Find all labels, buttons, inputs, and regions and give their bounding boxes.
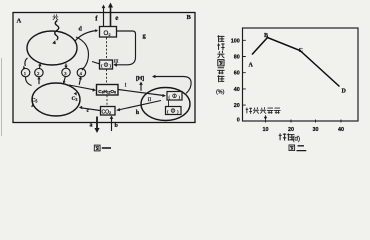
circled 4 — [77, 68, 85, 76]
svg-text:20: 20 — [234, 103, 240, 109]
svg-text:III: III — [114, 58, 119, 63]
chart frame — [243, 28, 359, 121]
arrow into circle1 from chloroplast — [25, 58, 28, 66]
Calvin-cycle ellipse — [32, 83, 80, 116]
cycle arrowhead left — [31, 104, 35, 107]
CO2 box — [101, 107, 116, 116]
svg-text:30: 30 — [313, 127, 319, 133]
mito box 1 — [167, 92, 182, 101]
connector circle3 to calvin ellipse — [64, 77, 66, 84]
d arrow chloroplast to O2 box — [75, 31, 97, 42]
svg-text:(d): (d) — [293, 135, 301, 142]
link box1 to box2 — [168, 100, 170, 106]
mitochondrion ellipse — [141, 88, 190, 121]
svg-text:B: B — [264, 33, 268, 39]
x axis label 叶龄 — [279, 133, 287, 140]
arrow e out of cell — [110, 7, 112, 27]
scan streak left edge — [1, 58, 3, 136]
line C6H12O6 to mitochondrion — [118, 90, 163, 96]
svg-text:[H]: [H] — [136, 76, 144, 82]
svg-text:D: D — [342, 89, 347, 95]
note pointer arrow — [265, 115, 267, 118]
cycle arrowhead right — [74, 92, 77, 96]
box (a) — [100, 60, 113, 69]
arrow up into circle4 from calvin ellipse — [79, 77, 81, 85]
y axis title 相对光合速率 — [217, 35, 224, 42]
svg-text:e: e — [115, 14, 118, 22]
circled 3 — [62, 68, 70, 76]
connector circle1 to calvin ellipse — [26, 77, 32, 86]
stub from box (a) to arc — [92, 62, 99, 64]
y ticks — [243, 40, 246, 105]
svg-text:B: B — [187, 14, 192, 21]
svg-text:40: 40 — [338, 127, 344, 133]
mito box 2 — [166, 107, 182, 115]
feed arrow calvin to C6H12O6 — [69, 85, 94, 90]
svg-text:A: A — [249, 63, 254, 69]
svg-text:80: 80 — [234, 55, 240, 61]
svg-text:(%): (%) — [216, 90, 225, 96]
big arc circle4 to chloroplast — [76, 37, 89, 69]
svg-text:a: a — [90, 123, 93, 129]
svg-text:40: 40 — [234, 87, 240, 93]
g elbow arrow O2 box to box (a) — [116, 31, 136, 65]
x ticks — [266, 120, 342, 123]
svg-text:100: 100 — [231, 38, 240, 44]
a thick arrow down out of cell — [96, 117, 98, 130]
svg-text:C: C — [299, 48, 303, 54]
svg-text:b: b — [115, 123, 119, 129]
data curve A-B-C-D — [252, 38, 340, 87]
light label (光) — [53, 14, 59, 20]
note 叶充分展开 — [246, 108, 252, 114]
C6H12O6 box — [97, 85, 119, 96]
arrow up from circle2 to chloroplast — [39, 64, 42, 69]
cell membrane rectangle — [13, 13, 195, 123]
circled 1 — [21, 68, 29, 76]
arrow into circle3 from chloroplast — [65, 64, 67, 69]
chloroplast light-reaction ellipse — [27, 31, 77, 65]
svg-text:20: 20 — [288, 127, 294, 133]
svg-text:O2: O2 — [104, 30, 112, 37]
svg-text:A: A — [17, 18, 22, 25]
svg-text:10: 10 — [263, 127, 269, 133]
O2 box — [100, 27, 117, 38]
h arrow mito to CO2 box — [118, 101, 161, 111]
arrow up to [H] — [140, 84, 142, 91]
caption 图一 — [94, 145, 100, 151]
b arrow up into CO2 box — [111, 118, 113, 131]
loop arrow mitochondrion to [H] — [154, 77, 192, 94]
light zigzag arrow — [55, 21, 59, 41]
dashed alignment line — [106, 38, 109, 107]
c arrow CO2 to calvin — [81, 108, 100, 111]
arrow f out of cell — [103, 7, 105, 26]
caption 图二 — [289, 145, 295, 151]
svg-text:0: 0 — [237, 117, 240, 123]
arrow up into circle2 from calvin ellipse — [38, 77, 40, 84]
point dots — [267, 37, 269, 39]
svg-text:60: 60 — [234, 71, 240, 77]
circled 2 — [35, 68, 43, 76]
svg-text:CO2: CO2 — [102, 109, 112, 115]
